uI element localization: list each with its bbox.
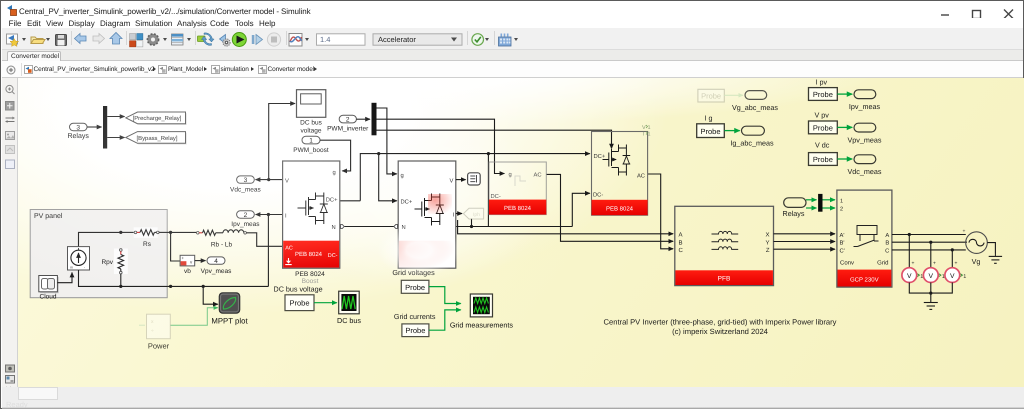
svg-text:PV panel: PV panel — [34, 212, 63, 220]
junction DC+ bus PEB2 — [377, 152, 380, 155]
svg-text:Conv: Conv — [840, 259, 854, 266]
svg-text:DC+: DC+ — [594, 153, 606, 160]
svg-text:AC: AC — [534, 171, 542, 178]
converter block PEB 8024 leg2 — [489, 162, 546, 215]
wire Relays to demux — [87, 126, 102, 128]
svg-text:PEB 8024: PEB 8024 — [295, 271, 325, 278]
svg-text:X: X — [765, 232, 769, 239]
svg-text:N: N — [332, 225, 336, 231]
svg-text:I pv: I pv — [816, 77, 828, 86]
plus marks meters — [912, 261, 958, 267]
outport oval Vg_abc_meas — [732, 91, 778, 112]
svg-text:Probe: Probe — [289, 299, 309, 308]
outport oval Vpv_meas — [848, 123, 882, 144]
svg-text:C': C' — [840, 247, 845, 254]
wire node to Rs — [121, 231, 135, 233]
menu bar — [2, 18, 1023, 28]
toolbar — [2, 28, 1023, 50]
svg-text:Probe: Probe — [405, 326, 425, 335]
wire to Rb-Lb — [171, 231, 197, 233]
new model icon — [7, 34, 19, 46]
svg-text:GCP 230V: GCP 230V — [850, 277, 879, 284]
svg-text:A': A' — [840, 233, 845, 239]
phase A wire — [458, 220, 673, 234]
svg-text:V dc: V dc — [815, 141, 830, 150]
inport 3 Relays — [67, 123, 89, 140]
svg-text:PEB 8024: PEB 8024 — [606, 205, 634, 212]
svg-text:AC: AC — [637, 172, 645, 179]
svg-text:V: V — [450, 178, 454, 184]
svg-text:Probe: Probe — [701, 92, 721, 101]
junction phase B meter — [929, 241, 932, 244]
inport 1 PWM_boost — [293, 136, 329, 154]
svg-text:DC+: DC+ — [326, 197, 338, 204]
svg-text:Relays: Relays — [67, 132, 89, 140]
stop button (disabled) — [267, 33, 280, 46]
svg-text:Vdc_meas: Vdc_meas — [848, 167, 882, 176]
status bar — [2, 387, 1024, 409]
vb measurement block — [180, 255, 195, 275]
wire demux out1 to PEB2 g — [377, 108, 397, 174]
svg-text:DC bus: DC bus — [337, 316, 361, 325]
svg-text:C: C — [679, 247, 684, 254]
coil winding phase B — [712, 239, 739, 242]
wire PWM_inverter to demux — [356, 118, 370, 120]
PEB2 N port stub — [394, 224, 398, 228]
svg-text:Rs: Rs — [143, 241, 152, 248]
svg-text:1: 1 — [309, 138, 313, 145]
svg-text:Cloud: Cloud — [40, 294, 57, 301]
phase B wire — [546, 174, 673, 241]
mosfet symbol PEB4 — [603, 145, 631, 176]
canvas background — [18, 78, 1024, 387]
wire Cloud to source — [57, 273, 72, 283]
scope DC bus voltage — [297, 90, 326, 135]
svg-text:PWM_inverter: PWM_inverter — [327, 126, 369, 133]
wire bus up to Ipv node — [267, 215, 269, 287]
vertical tap to vb — [171, 232, 181, 261]
build icon — [499, 34, 512, 47]
svg-text:g: g — [333, 170, 336, 176]
svg-text:I: I — [643, 131, 645, 137]
ground symbol meters — [924, 303, 938, 310]
probe V pv — [809, 111, 838, 134]
mosfet symbol PEB2 — [415, 194, 444, 226]
wire PEB1 DC+ — [340, 200, 361, 202]
svg-text:V: V — [907, 273, 912, 280]
junction phase A meter — [908, 233, 911, 236]
wire demux out2 to PEB3 g — [377, 119, 505, 173]
AC source Vg — [963, 228, 988, 266]
svg-text:Vdc_meas: Vdc_meas — [230, 186, 261, 193]
coil winding phase C — [712, 247, 739, 250]
svg-text:Grid measurements: Grid measurements — [450, 320, 514, 329]
svg-text:Grid: Grid — [877, 259, 888, 266]
PV panel subsystem box — [30, 210, 167, 298]
svg-text:A: A — [679, 232, 683, 239]
wire V node to Vdc_meas — [256, 179, 282, 181]
outport oval Ig_abc_meas — [730, 126, 774, 147]
current source PV — [68, 247, 90, 270]
red wash inside PEB2 — [428, 194, 452, 214]
junction bus MPPT tap — [202, 285, 205, 288]
contactor symbol GCP — [854, 226, 879, 247]
svg-text:Probe: Probe — [405, 283, 425, 292]
wire tap down to MPPT — [203, 286, 218, 304]
svg-text:Iph: Iph — [473, 212, 480, 218]
svg-text:PEB 8024: PEB 8024 — [504, 205, 532, 212]
bottom bus to MPPT column — [167, 285, 268, 287]
save floppy icon — [56, 35, 67, 46]
svg-text:AC: AC — [285, 246, 293, 252]
svg-text:B': B' — [840, 241, 845, 247]
junction V node — [267, 178, 270, 181]
DC+ bus wire — [360, 154, 590, 201]
svg-text:C: C — [885, 247, 889, 254]
svg-text:DC-: DC- — [593, 192, 603, 199]
converter block PEB 8024 leg3 — [592, 132, 648, 216]
probe Grid currents — [394, 312, 436, 337]
wire demux to Precharge tag — [107, 116, 124, 118]
forward arrow (disabled) — [93, 34, 105, 44]
probe Grid voltages — [392, 268, 435, 293]
wire demux to Bypass tag — [107, 137, 124, 139]
svg-text:Probe: Probe — [813, 90, 833, 99]
svg-text:A: A — [885, 233, 889, 239]
svg-text:3: 3 — [244, 177, 248, 184]
outport oval Ipv_meas — [849, 90, 881, 111]
svg-text:PEB 8024: PEB 8024 — [295, 251, 323, 258]
scope DC bus — [337, 291, 361, 325]
svg-text:V: V — [929, 273, 934, 280]
outport oval Vdc_meas — [848, 155, 882, 176]
green wire grid voltages — [429, 287, 461, 304]
probe I pv — [809, 77, 838, 100]
green wire mux to GCP 1 — [823, 199, 836, 201]
svg-text:Probe: Probe — [813, 124, 833, 133]
phase wires PFB to GCP — [774, 234, 836, 249]
svg-text:Central PV Inverter (three-pha: Central PV Inverter (three-phase, grid-t… — [604, 318, 837, 327]
svg-text:[Precharge_Relay]: [Precharge_Relay] — [133, 115, 182, 122]
voltmeter V3 — [945, 268, 966, 283]
svg-text:Rb - Lb: Rb - Lb — [211, 242, 233, 249]
N bus wire — [345, 226, 573, 228]
PEB1 N port stub — [341, 224, 345, 228]
resistor-inductor Rb-Lb — [197, 230, 247, 249]
svg-text:(c) imperix Switzerland 2024: (c) imperix Switzerland 2024 — [672, 327, 768, 336]
probe DC bus voltage — [274, 284, 323, 310]
svg-text:PWM_boost: PWM_boost — [293, 147, 329, 154]
wire bus to PEB2 DC+ — [379, 154, 397, 201]
svg-text:+: + — [912, 261, 915, 267]
library browser icon — [130, 34, 143, 47]
wire Rs to panel edge — [159, 231, 171, 233]
svg-text:Ipv_meas: Ipv_meas — [231, 221, 260, 228]
wire PWM_boost to PEB1 g — [320, 140, 351, 171]
green wire Power to MPPT — [170, 308, 218, 325]
svg-text:MPPT plot: MPPT plot — [211, 317, 248, 326]
svg-text:DC bus: DC bus — [300, 120, 322, 127]
svg-text:V: V — [642, 125, 646, 131]
svg-text:Z: Z — [766, 247, 770, 254]
svg-text:Grid currents: Grid currents — [394, 312, 436, 321]
transformer block PFB — [675, 206, 774, 285]
demux relays mux — [818, 194, 822, 212]
svg-text:1: 1 — [963, 274, 966, 280]
demux Relays — [103, 106, 107, 149]
junction ground bus — [929, 292, 932, 295]
svg-text:Vpv_meas: Vpv_meas — [848, 135, 882, 144]
glare overlay — [18, 78, 1024, 387]
svg-text:4: 4 — [214, 258, 218, 265]
green wire grid currents — [429, 310, 461, 330]
svg-text:Ig_abc_meas: Ig_abc_meas — [730, 139, 774, 148]
svg-text:Grid voltages: Grid voltages — [392, 268, 435, 277]
wire vb to Vpv_meas — [195, 260, 206, 262]
junction N bus — [470, 225, 473, 228]
outport 2 Ipv_meas — [231, 211, 260, 228]
green wire Ipv — [837, 93, 852, 95]
goto tag Bypass_Relay — [126, 132, 187, 145]
voltmeter V1 — [902, 268, 923, 283]
svg-text:N: N — [402, 225, 406, 231]
svg-text:Probe: Probe — [700, 127, 720, 136]
coil winding phase A — [712, 231, 739, 234]
grid connection block GCP 230V — [837, 190, 892, 287]
phase C wire — [648, 174, 674, 249]
wire PEB2 I to ghost tag — [456, 213, 462, 215]
probe Ig — [697, 113, 725, 137]
svg-text:voltage: voltage — [301, 128, 322, 135]
svg-text:V pv: V pv — [815, 111, 830, 120]
up arrow — [110, 33, 122, 45]
terminator block V — [468, 173, 481, 185]
green wire Vdc — [837, 158, 852, 160]
back arrow — [75, 34, 87, 44]
svg-text:Vpv_meas: Vpv_meas — [201, 268, 232, 275]
resistor Rs — [134, 227, 159, 248]
demux PWM — [372, 103, 377, 136]
step back icon — [220, 35, 231, 47]
bottom bus wire in panel — [79, 270, 168, 286]
grid wires GCP to source — [892, 235, 967, 250]
svg-text:vb: vb — [184, 268, 191, 275]
svg-text:3: 3 — [76, 124, 80, 131]
svg-text:V: V — [285, 178, 289, 184]
svg-text:B: B — [679, 239, 683, 246]
junction panel out top — [169, 231, 172, 234]
svg-text:DC-: DC- — [491, 193, 501, 200]
open folder icon — [31, 37, 45, 44]
svg-text:+: + — [955, 261, 958, 267]
svg-text:PFB: PFB — [718, 276, 731, 283]
breadcrumb bar — [2, 61, 1023, 79]
meter drop wires — [909, 235, 952, 268]
svg-text:1: 1 — [840, 198, 843, 204]
ground symbol source — [989, 254, 1002, 264]
resistor Rpv — [101, 249, 127, 275]
probe Vg ghost — [698, 89, 743, 102]
junction DC+ bus mid — [487, 152, 490, 155]
svg-text:g: g — [401, 173, 404, 179]
wire Rpv bottom stub — [120, 274, 122, 287]
connect/update icon — [198, 33, 215, 46]
mosfet symbol PEB1 — [298, 193, 328, 225]
outport 3 Vdc_meas — [230, 176, 261, 193]
wire source to ground — [987, 243, 995, 254]
inport 2 PWM_inverter — [327, 115, 369, 132]
svg-text:2: 2 — [346, 117, 350, 124]
goto tag Precharge_Relay — [126, 112, 187, 125]
outport 4 Vpv_meas — [201, 257, 232, 275]
step forward icon — [252, 35, 263, 45]
svg-text:Power: Power — [148, 342, 170, 351]
green wire probe to DC bus scope — [314, 302, 337, 304]
svg-text:g: g — [509, 172, 512, 178]
svg-text:Vg_abc_meas: Vg_abc_meas — [732, 103, 778, 112]
svg-text:DC+: DC+ — [401, 198, 413, 205]
green wire Relays r2 — [806, 207, 816, 209]
sim data inspector icon — [289, 34, 302, 47]
junction Rpv bottom — [119, 285, 122, 288]
update diagram check icon — [472, 34, 484, 46]
wire Rb-Lb to PEB1 AC — [246, 233, 282, 247]
svg-text:1: 1 — [648, 125, 651, 131]
wire bus down mid — [487, 154, 489, 227]
Cloud block — [39, 276, 59, 301]
svg-text:V: V — [950, 273, 955, 280]
svg-text:Rpv: Rpv — [101, 259, 113, 266]
wire V node up to scope — [269, 104, 295, 180]
svg-text:I g: I g — [705, 113, 713, 122]
tab bar — [2, 50, 1023, 61]
wire pentagon down to N bus — [471, 219, 473, 227]
green wire Relays r1 — [806, 199, 816, 201]
svg-text:2: 2 — [244, 212, 248, 219]
svg-text:Relays: Relays — [783, 209, 805, 218]
svg-text:Vg: Vg — [972, 257, 981, 266]
svg-text:B: B — [885, 241, 889, 247]
svg-text:+: + — [182, 255, 185, 260]
svg-text:DC bus voltage: DC bus voltage — [274, 284, 323, 293]
green wire mux to GCP 2 — [823, 207, 836, 209]
left palette — [2, 78, 18, 387]
signal annotations V1 I1 — [642, 125, 651, 138]
node junction Rpv top — [119, 231, 122, 234]
svg-text:+: + — [963, 228, 966, 234]
MPPT plot scope block — [211, 293, 248, 326]
accelerator combo — [373, 34, 462, 45]
junction bus left — [169, 285, 172, 288]
meter ground bus — [909, 283, 952, 303]
svg-text:Y: Y — [765, 239, 769, 246]
gear icon — [147, 34, 158, 45]
probe V dc — [809, 141, 838, 166]
junction I node — [267, 213, 270, 216]
voltmeter V2 — [923, 268, 944, 283]
from tag oval Relays — [783, 198, 806, 218]
svg-text:Probe: Probe — [813, 155, 833, 164]
green wire Ig — [724, 130, 739, 132]
wire top node inside panel — [79, 232, 121, 246]
green wire Vpv — [837, 126, 852, 128]
svg-text:DC-: DC- — [328, 253, 338, 259]
scope Grid measurements — [450, 294, 514, 329]
svg-text:÷: ÷ — [151, 328, 154, 334]
svg-text:1: 1 — [648, 131, 651, 137]
wire demux out3 to PEB4 g — [377, 130, 612, 148]
svg-text:2: 2 — [840, 207, 843, 213]
run green play button — [232, 33, 246, 47]
wire I node to Ipv_meas — [256, 214, 282, 216]
svg-text:Ipv_meas: Ipv_meas — [849, 102, 881, 111]
converter block PEB 8024 Boost — [283, 161, 340, 268]
svg-text:[Bypass_Relay]: [Bypass_Relay] — [137, 135, 178, 142]
wire N bus up to PEB4 DC- — [572, 193, 590, 226]
junction phase C meter — [951, 248, 954, 251]
converter block PEB 8024 inverter leg1 — [398, 161, 456, 268]
wire PEB2 V to terminator — [456, 179, 466, 181]
svg-text:m: m — [70, 266, 73, 270]
Power block faded — [139, 314, 170, 339]
ghost goto tag Iph — [463, 208, 483, 219]
title bar — [2, 2, 1023, 18]
model explorer icon — [172, 34, 184, 45]
svg-text:+: + — [933, 261, 936, 267]
stop time field — [317, 34, 366, 45]
